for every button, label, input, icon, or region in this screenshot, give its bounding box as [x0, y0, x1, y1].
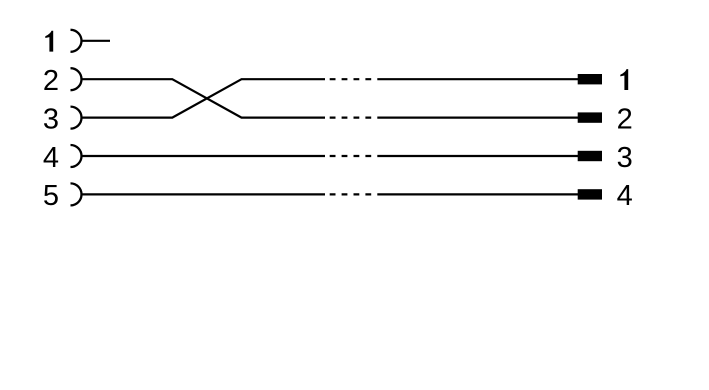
wire from socket 4 to pin 3, solid left part	[82, 155, 326, 157]
svg-text:4: 4	[43, 142, 59, 174]
pin label 1 (right)	[620, 69, 628, 90]
svg-text:4: 4	[617, 180, 633, 212]
wire 2 solid right part to pin contact 2	[377, 116, 578, 118]
pin contact 3 (right)	[578, 151, 602, 161]
wire from socket 2 to pin 2 (crosses wire 3), solid left part	[82, 79, 326, 117]
wire 3 solid right part to pin contact 1	[377, 78, 578, 80]
socket contact 5 (left)	[71, 183, 82, 205]
pin contact 4 (right)	[578, 189, 602, 199]
wire 5 dashed cable-break section	[330, 193, 373, 195]
pin label 1 (left)	[45, 31, 53, 52]
svg-text:2: 2	[43, 65, 59, 97]
socket contact 1 (left)	[71, 30, 82, 52]
wire 2 dashed cable-break section	[330, 116, 373, 118]
wire 5 solid right part to pin contact 4	[377, 193, 578, 195]
pin contact 1 (right)	[578, 74, 602, 84]
svg-text:5: 5	[43, 180, 59, 212]
svg-text:3: 3	[617, 142, 633, 174]
socket contact 2 (left)	[71, 68, 82, 90]
wire from socket 5 to pin 4, solid left part	[82, 193, 326, 195]
wire 3 dashed cable-break section	[330, 78, 373, 80]
socket contact 4 (left)	[71, 145, 82, 167]
wire 4 solid right part to pin contact 3	[377, 155, 578, 157]
wire from socket 3 to pin 1 (crosses wire 2), solid left part	[82, 79, 326, 117]
pin contact 2 (right)	[578, 112, 602, 122]
svg-text:2: 2	[617, 103, 633, 135]
wire 4 dashed cable-break section	[330, 155, 373, 157]
svg-text:3: 3	[43, 103, 59, 135]
wire stub from socket 1	[82, 40, 111, 42]
socket contact 3 (left)	[71, 107, 82, 129]
